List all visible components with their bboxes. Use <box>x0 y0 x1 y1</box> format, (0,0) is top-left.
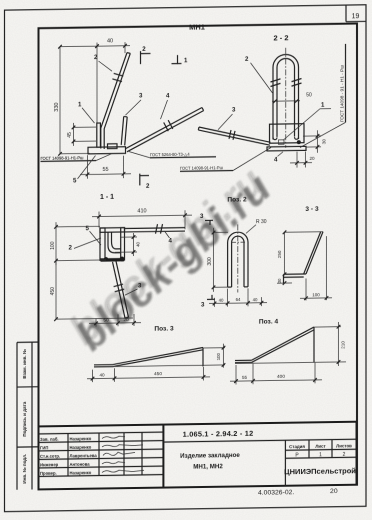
signatures <box>102 436 125 438</box>
svg-text:3: 3 <box>201 301 205 308</box>
wedge section top line <box>285 231 324 234</box>
part 1 plate upright <box>97 123 101 147</box>
watermark block-gbi.ru <box>67 164 279 360</box>
dimension 50 <box>272 100 300 102</box>
svg-text:55: 55 <box>102 167 108 173</box>
svg-text:40: 40 <box>136 241 141 247</box>
svg-text:1: 1 <box>319 452 322 458</box>
centerline <box>237 224 239 292</box>
dimension 330 <box>59 47 61 155</box>
dimension 100 <box>56 225 100 228</box>
svg-text:4: 4 <box>166 92 170 99</box>
break marks leg <box>115 289 125 292</box>
wedge Poz4 bottom line <box>235 362 346 364</box>
svg-text:МН1: МН1 <box>189 22 205 31</box>
svg-text:1: 1 <box>184 57 188 64</box>
title block left columns <box>67 433 69 476</box>
centerline hairpin <box>285 48 287 148</box>
svg-text:2: 2 <box>146 183 150 190</box>
svg-text:3 - 3: 3 - 3 <box>305 206 319 213</box>
dimensions 40 450 <box>92 370 94 383</box>
dimensions 55 400 <box>235 365 237 385</box>
svg-text:50: 50 <box>103 317 109 323</box>
svg-text:МН1, МН2: МН1, МН2 <box>193 463 223 470</box>
weld washer on base <box>108 144 118 149</box>
svg-text:ГОСТ 14098 - 91 - Н1 - Рш: ГОСТ 14098 - 91 - Н1 - Рш <box>340 65 345 122</box>
part 3 wedge upright <box>121 116 124 145</box>
svg-text:210: 210 <box>341 341 346 349</box>
page number box <box>345 5 347 22</box>
doc number row divider <box>163 439 356 442</box>
svg-text:20: 20 <box>330 488 338 495</box>
dimension 300 <box>214 231 229 233</box>
dimension 450 <box>55 261 57 320</box>
svg-text:30: 30 <box>277 278 282 283</box>
weld dots <box>104 257 108 261</box>
stage table <box>284 440 286 486</box>
svg-text:2: 2 <box>245 56 249 63</box>
svg-text:Подпись и дата: Подпись и дата <box>22 401 27 436</box>
bracket bottom weld band <box>101 258 125 262</box>
wedge section bottom leg <box>284 273 307 275</box>
svg-text:ГОСТ 14098-91-Н1-Рш: ГОСТ 14098-91-Н1-Рш <box>41 155 84 161</box>
svg-text:Поз. 2: Поз. 2 <box>227 196 247 203</box>
svg-text:Провер.: Провер. <box>40 471 57 476</box>
dimension 20 bottom <box>296 152 298 168</box>
dimension 30 <box>277 282 292 284</box>
svg-text:Зав. лаб.: Зав. лаб. <box>40 437 59 442</box>
svg-text:55: 55 <box>242 375 248 380</box>
part 4 rod diagonal <box>125 108 202 149</box>
bracket right wall <box>121 228 125 260</box>
weld dot <box>297 140 301 144</box>
svg-text:Назаренко: Назаренко <box>70 470 92 475</box>
svg-text:1: 1 <box>321 102 325 109</box>
anchor cup part 1 <box>270 124 305 144</box>
dimension 100 right <box>203 347 225 349</box>
svg-text:250: 250 <box>277 250 282 258</box>
svg-text:1: 1 <box>78 101 82 108</box>
bottom dimensions 50 20 <box>95 319 97 327</box>
svg-text:ГОСТ 5264-80-Т3-△4: ГОСТ 5264-80-Т3-△4 <box>150 152 190 158</box>
svg-text:Антонова: Антонова <box>70 462 91 467</box>
hairpin loop part 2 <box>273 54 299 139</box>
svg-text:Листов: Листов <box>336 443 352 448</box>
title block left rows <box>39 432 164 434</box>
svg-text:Инженер: Инженер <box>40 462 59 467</box>
svg-text:Назаренко: Назаренко <box>70 445 92 450</box>
svg-text:330: 330 <box>54 103 60 112</box>
svg-text:4.00326-02.: 4.00326-02. <box>258 489 294 497</box>
rod part 3 left <box>199 126 271 143</box>
dimension 40 <box>60 46 130 47</box>
title block outline <box>39 422 357 490</box>
svg-text:4: 4 <box>169 237 173 244</box>
leg part 3 diagonal <box>113 262 126 318</box>
svg-text:Инв. № подл.: Инв. № подл. <box>22 454 27 484</box>
dimension 410 <box>98 212 100 228</box>
svg-text:410: 410 <box>137 208 146 214</box>
svg-text:40: 40 <box>253 297 258 302</box>
svg-text:ГОСТ 14098-91-Н1-Рш: ГОСТ 14098-91-Н1-Рш <box>180 165 223 171</box>
wedge Poz3 foot <box>94 364 113 366</box>
svg-text:30: 30 <box>322 139 327 145</box>
rod part 4 horizontal <box>125 227 186 230</box>
break marks rod 4 <box>164 122 169 131</box>
svg-text:20: 20 <box>123 317 129 323</box>
wedge Poz3 diagonal <box>113 347 203 364</box>
dimension 40 small <box>120 236 137 238</box>
dimension 210 <box>314 326 341 328</box>
svg-text:Стадия: Стадия <box>289 444 305 449</box>
svg-text:40: 40 <box>99 372 105 377</box>
svg-text:2: 2 <box>343 452 346 458</box>
svg-text:50: 50 <box>306 92 312 98</box>
left margin boxes <box>16 342 18 489</box>
svg-text:Лаврентьева: Лаврентьева <box>70 453 98 458</box>
svg-text:450: 450 <box>154 371 162 377</box>
svg-text:1 - 1: 1 - 1 <box>100 194 114 201</box>
hairpin hook section <box>108 232 121 253</box>
svg-text:450: 450 <box>50 287 56 296</box>
svg-text:2: 2 <box>68 244 72 251</box>
svg-text:2 - 2: 2 - 2 <box>273 33 288 42</box>
svg-text:1.065.1 - 2.94.2 - 12: 1.065.1 - 2.94.2 - 12 <box>183 429 254 439</box>
step detail <box>279 140 285 145</box>
section mark 1 top <box>177 55 179 64</box>
svg-text:40: 40 <box>107 38 113 44</box>
svg-text:5: 5 <box>73 177 77 184</box>
svg-text:3: 3 <box>138 282 142 289</box>
svg-text:Взам. инв. №: Взам. инв. № <box>22 349 27 379</box>
svg-text:ГИП: ГИП <box>40 445 48 450</box>
svg-text:2: 2 <box>94 54 98 61</box>
svg-text:4: 4 <box>274 156 278 163</box>
bracket top plate <box>100 228 125 233</box>
base plate <box>88 147 126 154</box>
svg-text:R 30: R 30 <box>256 219 267 225</box>
svg-text:40: 40 <box>219 297 224 302</box>
svg-text:100: 100 <box>50 241 56 250</box>
svg-text:Изделие закладное: Изделие закладное <box>180 452 240 460</box>
part 2 rod steep <box>101 53 127 149</box>
hairpin part standalone <box>228 232 248 287</box>
break marks hairpin legs <box>271 83 281 86</box>
bracket left plate <box>100 228 105 260</box>
svg-text:400: 400 <box>277 374 285 380</box>
svg-text:Поз. 3: Поз. 3 <box>154 325 174 332</box>
svg-text:64: 64 <box>236 297 241 302</box>
svg-text:ЦНИИЭПсельстрой: ЦНИИЭПсельстрой <box>284 466 356 476</box>
wedge section diagonal <box>306 232 323 274</box>
wedge Poz4 diagonal <box>252 327 315 360</box>
dimension 30 vertical <box>303 135 321 137</box>
inner drawing frame <box>39 24 358 490</box>
dimension 45 <box>74 126 97 128</box>
svg-text:20: 20 <box>309 156 315 161</box>
svg-text:Поз. 4: Поз. 4 <box>259 318 279 325</box>
svg-text:3: 3 <box>232 106 236 113</box>
break marks rod 3 <box>229 130 231 139</box>
dimension 55 <box>87 155 89 179</box>
svg-text:100: 100 <box>312 292 320 297</box>
section mark 2 bottom <box>139 174 141 186</box>
svg-text:Лист: Лист <box>315 444 326 449</box>
dimension 250 <box>284 232 286 274</box>
svg-text:19: 19 <box>352 13 360 20</box>
break marks rod 2 <box>112 79 122 82</box>
svg-text:Назаренко: Назаренко <box>70 436 92 441</box>
break marks rod <box>156 224 158 234</box>
svg-text:3: 3 <box>139 92 143 99</box>
svg-text:100: 100 <box>216 353 221 361</box>
wedge Poz3 bottom line <box>94 365 225 367</box>
bottom dimensions 40 64 40 <box>214 298 216 307</box>
svg-text:Ст.н.сотр.: Ст.н.сотр. <box>40 454 60 459</box>
svg-text:300: 300 <box>207 257 213 266</box>
svg-text:45: 45 <box>67 132 73 138</box>
svg-text:3: 3 <box>200 213 204 220</box>
dimension 100 <box>305 278 307 300</box>
bottom wedge plate part 4 <box>267 146 306 151</box>
svg-text:2: 2 <box>142 46 146 53</box>
wedge Poz4 foot <box>235 359 252 361</box>
